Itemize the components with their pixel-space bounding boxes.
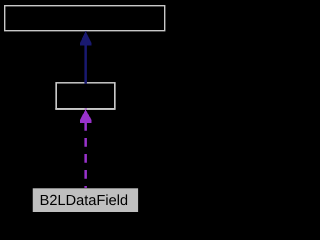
inheritance arrow tip blending over top box border [85,31,87,32]
inheritance arrow shaft (midnightblue) from middle box to top box [84,45,87,84]
template arrow tip blending over middle box border [85,108,87,110]
node: top base-class box [5,6,165,31]
node: B2LDataField box (current class, grey filled) [33,188,138,212]
template-relation arrowhead (darkorchid) [80,110,92,123]
node: middle intermediate-class box [56,83,115,109]
inheritance arrowhead (midnightblue) [80,31,92,45]
middle box border reinforcement: left, right, bottom [56,82,57,109]
label: B2LDataField [41,194,127,205]
template-relation dashed shaft (darkorchid) from B2LDataField box to middle box [84,122,87,188]
